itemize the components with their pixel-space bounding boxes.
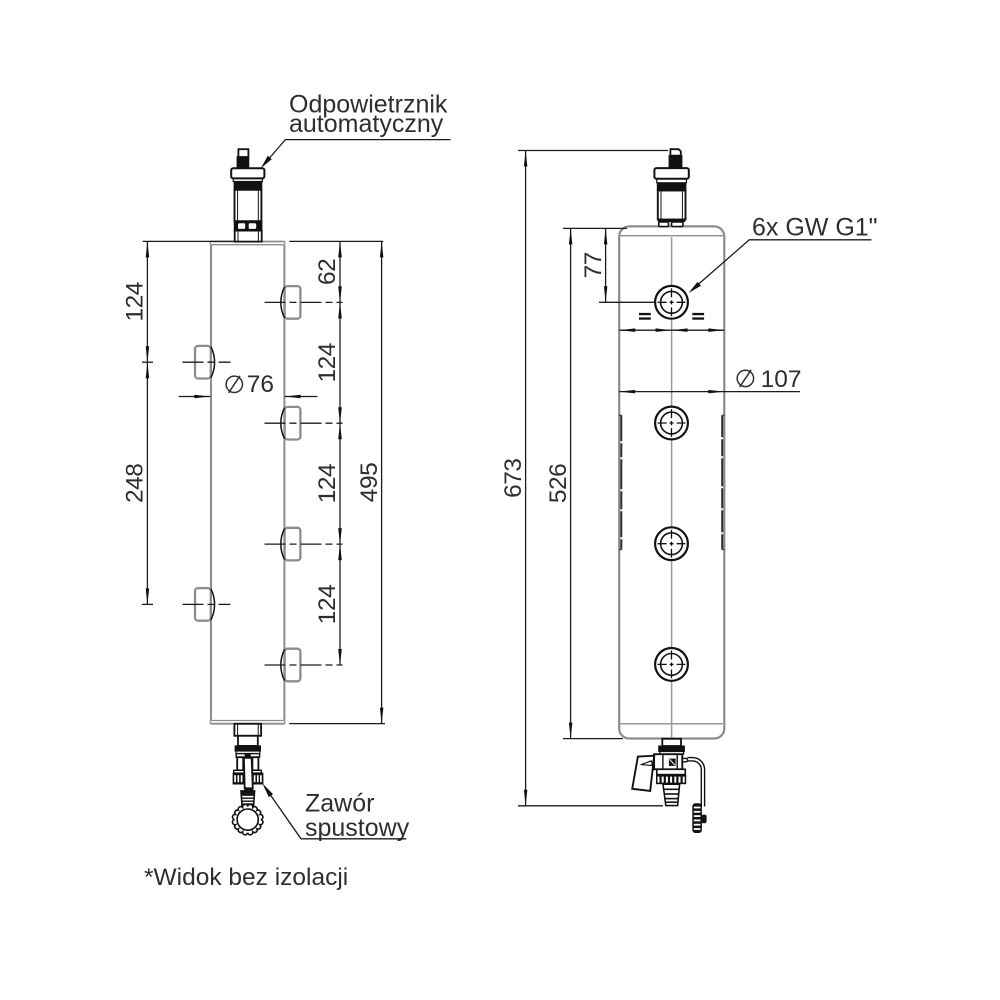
right side port stub 2 (left view)	[285, 407, 301, 440]
hanging drain cap (knurled)	[693, 804, 702, 833]
equality marks (=)	[639, 313, 651, 315]
dim 495	[381, 241, 383, 723]
dim diameter 107	[619, 391, 800, 393]
right side port stub 1 (left view)	[285, 286, 301, 319]
dim 673	[525, 151, 527, 806]
left side port stub 1 (left view)	[195, 346, 211, 379]
svg-text:76: 76	[247, 371, 274, 398]
equal-split dimension line	[619, 329, 724, 331]
port 2 centerline	[265, 422, 343, 424]
svg-text:spustowy: spustowy	[305, 814, 410, 842]
svg-text:526: 526	[545, 464, 572, 503]
extension lines (left view)	[142, 241, 385, 723]
svg-text:124: 124	[314, 585, 341, 624]
drain valve knurled nuts (left view)	[233, 773, 244, 784]
left view vessel body (side, without insulation)	[210, 242, 285, 724]
svg-text:62: 62	[314, 259, 341, 285]
G1 inch threaded port 4 (front view)	[655, 648, 688, 681]
left side port stub 2 (left view)	[195, 588, 211, 621]
svg-text:248: 248	[122, 464, 149, 503]
svg-text:673: 673	[500, 459, 527, 498]
knurled drain knob	[232, 804, 262, 834]
svg-text:124: 124	[314, 343, 341, 382]
extension lines (right view)	[518, 151, 668, 806]
svg-text:495: 495	[356, 463, 383, 502]
cap retaining strap	[687, 758, 704, 807]
G1 inch threaded port 1 (front view)	[655, 286, 688, 319]
svg-text:77: 77	[580, 252, 607, 278]
dim chain left (124 / 248)	[146, 241, 148, 604]
dim chain right (62 /124/124/124)	[339, 241, 341, 665]
port 4 centerline	[265, 664, 343, 666]
insulation jacket seam right	[722, 414, 724, 416]
right side port stub 4 (left view)	[285, 649, 301, 682]
dim 526	[570, 228, 572, 738]
drain valve lever (right view)	[632, 756, 654, 791]
right side port stub 3 (left view)	[285, 528, 301, 561]
automatic air vent (left view)	[231, 149, 264, 241]
knurled coupling nut (right view)	[657, 769, 686, 774]
automatic air vent (right view)	[654, 149, 688, 226]
dim diameter 76	[179, 396, 211, 398]
svg-text:6x GW G1": 6x GW G1"	[752, 214, 878, 242]
port 3 centerline	[265, 543, 343, 545]
G1 inch threaded port 3 (front view)	[655, 527, 688, 560]
left port 1 centerline	[183, 361, 231, 363]
dim 77	[605, 228, 607, 302]
valve lever handle (vertical)	[244, 758, 253, 789]
svg-text:124: 124	[314, 464, 341, 503]
svg-text:107: 107	[761, 366, 802, 393]
insulation jacket seam left	[619, 415, 724, 549]
G1 inch threaded port 2 (front view)	[655, 407, 688, 440]
svg-text:automatyczny: automatyczny	[289, 110, 444, 138]
svg-text:124: 124	[122, 282, 149, 321]
drain valve (left view)	[234, 724, 262, 773]
vertical centerline	[671, 237, 673, 738]
hose barb outlet (left view)	[241, 791, 255, 805]
hose barb (right view)	[663, 784, 680, 805]
right view vessel (with insulation)	[619, 226, 724, 738]
drain valve (right view)	[654, 739, 687, 770]
left port 2 centerline	[183, 603, 231, 605]
svg-text:*Widok bez izolacji: *Widok bez izolacji	[144, 864, 348, 891]
valve bolt	[244, 759, 252, 767]
port 1 centerline	[265, 301, 343, 303]
